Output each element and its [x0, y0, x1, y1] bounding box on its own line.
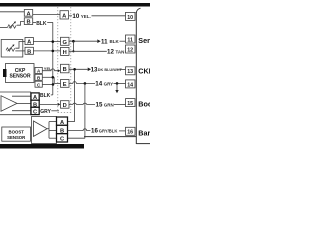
svg-text:16: 16: [91, 128, 98, 135]
boost connector pin C (bold): [57, 134, 68, 143]
svg-text:TAN: TAN: [116, 49, 125, 54]
svg-text:G: G: [62, 40, 67, 46]
svg-text:B: B: [27, 49, 31, 55]
CKP connector pin A: [35, 67, 42, 73]
boost connector pin A (bold): [57, 117, 68, 126]
inline connector pin A: [60, 11, 69, 20]
svg-text:GRY/BLK: GRY/BLK: [99, 129, 118, 134]
inline connector pin E: [61, 80, 70, 88]
svg-text:10: 10: [72, 13, 79, 20]
wire 12 TAN to pin 12: [69, 48, 126, 55]
CKP sensor box: [3, 64, 34, 83]
inline connector pin B: [61, 64, 70, 73]
PCM pin 13: [126, 67, 136, 75]
CKP connector pin B: [35, 74, 42, 80]
wire v2 branch from 14 row to boost C: [68, 83, 85, 138]
inline connector pin G: [61, 37, 70, 46]
svg-text:H: H: [63, 50, 67, 56]
svg-text:C: C: [33, 110, 37, 116]
svg-text:A: A: [27, 40, 31, 46]
svg-text:BLK: BLK: [36, 21, 47, 27]
wire sensor1 A to inline A: [33, 14, 60, 16]
svg-text:E: E: [63, 82, 67, 88]
inline connector dashed boundary: [58, 7, 71, 113]
PCM pin 16: [126, 127, 136, 135]
svg-text:BLK: BLK: [110, 39, 120, 44]
svg-text:DK BLU/WHT: DK BLU/WHT: [98, 68, 123, 72]
svg-text:16: 16: [127, 130, 133, 136]
svg-text:15: 15: [127, 101, 133, 107]
svg-text:12: 12: [107, 48, 114, 55]
splice junction BLK bus to H wire: [52, 50, 55, 53]
splice junction bus on CKP B wire: [52, 76, 55, 79]
svg-text:15: 15: [96, 102, 103, 109]
svg-text:YEL.: YEL.: [81, 14, 91, 19]
wire off-page arrow down: [115, 83, 118, 93]
PCM pin 12: [126, 45, 136, 53]
svg-text:11: 11: [127, 37, 133, 43]
sensor 1 (crank pickup coil, cut at left edge): [0, 12, 24, 29]
PCM pin 14: [126, 80, 136, 88]
amp connector pin B (bold): [31, 100, 39, 108]
splice junction CKP C to bus: [52, 83, 55, 86]
connector pin A (sensor 1): [24, 10, 32, 18]
wire CKP A YEL to inline B: [42, 66, 60, 72]
wire amp C GRY: [39, 109, 59, 115]
wire sensor2 B to inline H: [33, 50, 60, 52]
svg-text:SENSOR: SENSOR: [7, 135, 26, 140]
svg-text:B: B: [26, 20, 30, 26]
wire branch 11 to 12 row: [72, 41, 74, 51]
svg-text:12: 12: [127, 47, 133, 53]
svg-text:13: 13: [127, 69, 133, 75]
wire amp B to inline D: [39, 103, 60, 106]
svg-text:D: D: [63, 103, 67, 109]
splice junction BLK bus to G wire: [52, 40, 55, 43]
svg-text:10: 10: [127, 15, 133, 21]
connector pin B (sensor 1): [24, 18, 32, 26]
connector pin A (sensor 2): [25, 38, 33, 46]
top border bar: [0, 3, 150, 7]
svg-text:CKP: CKP: [138, 67, 150, 76]
svg-text:Boos: Boos: [138, 99, 150, 108]
CKP connector pin C: [35, 81, 42, 87]
boost connector pin B (bold): [57, 125, 68, 134]
wire 14 GRY to pin 14: [69, 81, 126, 88]
svg-text:11: 11: [101, 38, 108, 45]
boost sensor amp box: [32, 117, 57, 144]
wire sensor1 B BLK: [33, 21, 53, 27]
svg-text:Sens: Sens: [138, 36, 150, 45]
svg-text:A: A: [26, 11, 30, 17]
inline connector pin D: [61, 101, 70, 109]
svg-text:C: C: [60, 137, 64, 143]
svg-text:B: B: [63, 67, 67, 73]
amp connector pin A (bold): [31, 93, 39, 101]
splice junction v2 on 14 row: [84, 82, 87, 85]
svg-text:14: 14: [127, 82, 133, 88]
bottom-left border bar: [0, 144, 84, 149]
wire v1 branch from 13 row to boost A: [68, 69, 75, 121]
svg-text:GRY: GRY: [104, 81, 114, 86]
wire sensor2 A to inline G: [33, 41, 60, 43]
connector pin B (sensor 2): [25, 47, 33, 55]
svg-text:A: A: [62, 13, 66, 19]
svg-text:GRN: GRN: [104, 103, 114, 108]
inline connector pin H: [61, 47, 70, 56]
svg-text:SENSOR: SENSOR: [9, 74, 31, 80]
wire 11 BLK to pin 11: [69, 38, 126, 45]
svg-text:14: 14: [95, 81, 102, 88]
BOOST SENSOR label box: [2, 127, 31, 141]
PCM pin 15: [126, 99, 136, 107]
svg-text:Baro: Baro: [138, 129, 150, 138]
svg-text:BLK: BLK: [40, 93, 51, 99]
wire CKP C to ground bus: [42, 83, 53, 85]
PCM pin 10: [126, 12, 136, 20]
amp connector pin C (bold): [31, 107, 39, 115]
wire 13 DK BLU/WHT to pin 13: [69, 66, 126, 73]
sensor 2 (pickup coil in box): [1, 40, 25, 58]
wire 15 GRN to pin 15 (hops over v1 and v2): [69, 102, 126, 109]
wire 10 YEL to pin 10: [69, 13, 126, 20]
splice junction branch to 12 row: [72, 50, 74, 52]
wire 16 GRY/BLK to pin 16: [68, 128, 126, 135]
splice junction pin14 off-page branch: [116, 82, 119, 85]
splice junction v1 on 13 row: [73, 68, 76, 71]
PCM pin 11: [126, 35, 136, 43]
svg-text:GRY: GRY: [40, 109, 51, 115]
splice junction pin11 branch: [72, 40, 75, 43]
boost amp sensor box (cut at left): [0, 92, 31, 115]
BLK ground bus (vertical): [52, 22, 54, 95]
wire amp A BLK to ground bus: [39, 93, 53, 99]
wire CKP B to inline E: [42, 77, 60, 83]
PCM connector outline C1: [84, 8, 150, 144]
